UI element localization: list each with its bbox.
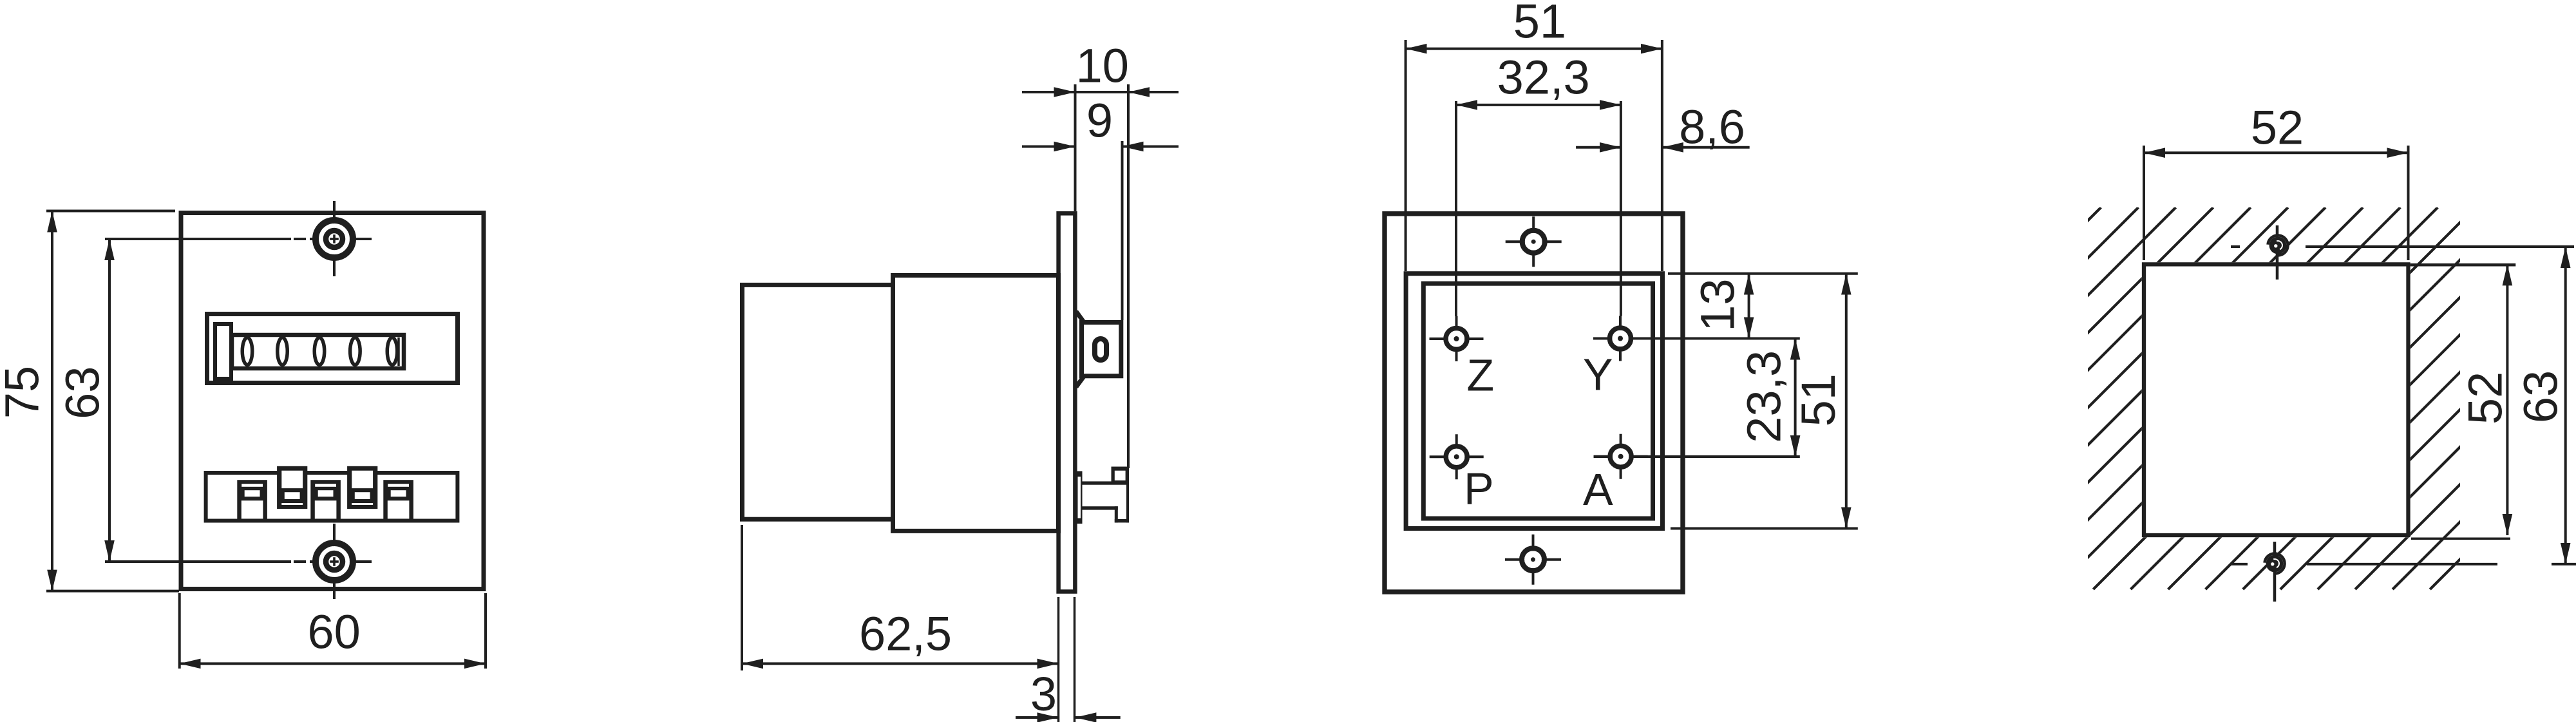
digit separator line bbox=[397, 337, 400, 366]
clip slant bottom bbox=[1076, 375, 1084, 387]
dim 3 extension lines bbox=[1057, 597, 1060, 722]
rear view: inner frame outer bbox=[1406, 274, 1662, 529]
right ext line bottom bbox=[1671, 527, 1858, 530]
ext line Y row to 23,3 dim bbox=[1593, 337, 1800, 340]
dim 62,5 extension left bbox=[741, 525, 743, 670]
dimension 32,3 bbox=[1456, 104, 1621, 106]
svg-text:60: 60 bbox=[307, 605, 360, 659]
top screw line bbox=[2231, 245, 2240, 248]
top edge extension bbox=[2410, 263, 2516, 267]
svg-text:51: 51 bbox=[1513, 0, 1566, 48]
dimension 51 right bbox=[1845, 274, 1848, 529]
dimension 8,6 bbox=[1576, 146, 1621, 149]
dim 60 extension right bbox=[484, 593, 487, 669]
svg-text:52: 52 bbox=[2251, 100, 2304, 154]
wall hatching bbox=[1681, 207, 2576, 589]
ext line 10mm bbox=[1127, 84, 1130, 468]
screw head bbox=[319, 223, 350, 254]
screw crosshair vertical bbox=[333, 201, 336, 276]
dimension 52 right bbox=[2506, 264, 2508, 535]
small fixing screw bbox=[1505, 558, 1561, 561]
port circle bbox=[1594, 455, 1648, 458]
port circle bbox=[1593, 337, 1647, 340]
dim 75 extension line top bbox=[46, 210, 175, 213]
dimension 75 line bbox=[51, 211, 53, 591]
dimension 23,3 bbox=[1794, 339, 1797, 457]
dim 52 top ext lines bbox=[2143, 146, 2145, 260]
svg-text:Y: Y bbox=[1583, 350, 1613, 400]
clip hole 0 bbox=[1095, 339, 1106, 360]
bottom mounting clip bbox=[1077, 471, 1083, 524]
svg-text:75: 75 bbox=[0, 366, 48, 419]
rear view: outer outline bbox=[1385, 214, 1683, 592]
dimension 62,5 line bbox=[742, 662, 1059, 665]
bottom edge extension bbox=[2411, 538, 2510, 540]
dimension 51 top bbox=[1406, 48, 1662, 50]
dim 60 extension left bbox=[178, 593, 181, 669]
svg-text:62,5: 62,5 bbox=[859, 607, 952, 660]
dimension 63 right bbox=[2564, 247, 2567, 564]
dimension 13 bbox=[1748, 274, 1750, 339]
terminal (lower type) bbox=[237, 480, 267, 520]
dimension 3 bbox=[1016, 716, 1059, 719]
dim 63 extension bottom (crosshair of bottom screw) bbox=[105, 560, 291, 563]
dim 32,3 ext lines bbox=[1455, 101, 1457, 316]
terminal (raised type) bbox=[277, 466, 307, 509]
side view: front body bbox=[893, 276, 1059, 531]
dimension 10 bbox=[1022, 91, 1075, 93]
bottom wall screw crosshair bbox=[2273, 542, 2277, 602]
screw crosshair vertical bbox=[333, 524, 336, 599]
mounting panel plate bbox=[1059, 213, 1075, 591]
top clip box bbox=[1082, 323, 1121, 376]
svg-text:23,3: 23,3 bbox=[1737, 350, 1790, 443]
side view: rear body bbox=[743, 285, 893, 519]
svg-text:10: 10 bbox=[1076, 39, 1129, 92]
cut-out square bbox=[2144, 264, 2409, 535]
dimension 60 line bbox=[180, 662, 486, 665]
dim 63 extension top (crosshair of top screw) bbox=[105, 238, 291, 240]
terminal (lower type) bbox=[383, 480, 413, 520]
dimension 52 top bbox=[2144, 151, 2409, 154]
counter display window frame bbox=[207, 314, 458, 383]
spiral screw symbol bbox=[2266, 555, 2284, 573]
screw head bbox=[319, 546, 350, 577]
dimension 63 line bbox=[108, 239, 111, 562]
terminal (lower type) bbox=[310, 480, 341, 520]
svg-text:63: 63 bbox=[2514, 370, 2567, 423]
counter digits window bbox=[232, 335, 404, 368]
reset button bbox=[215, 324, 231, 379]
front view: panel outline bbox=[181, 213, 484, 589]
svg-text:52: 52 bbox=[2458, 372, 2512, 424]
port circle bbox=[1430, 337, 1484, 340]
right ext line top bbox=[1668, 272, 1858, 275]
dim 51 top ext lines bbox=[1405, 40, 1407, 271]
top wall screw crosshair bbox=[2276, 225, 2279, 280]
svg-text:32,3: 32,3 bbox=[1497, 50, 1590, 104]
ext line A row to 23,3 dim bbox=[1594, 455, 1800, 458]
svg-text:A: A bbox=[1583, 464, 1613, 515]
ext line 9mm bbox=[1121, 141, 1124, 320]
bottom screw line bbox=[2231, 563, 2248, 565]
svg-text:13: 13 bbox=[1690, 278, 1744, 331]
svg-text:Z: Z bbox=[1466, 350, 1494, 400]
ext line panel rear face bbox=[1074, 84, 1077, 211]
rear view: inner frame inner bbox=[1423, 283, 1653, 518]
svg-text:P: P bbox=[1464, 464, 1494, 514]
clip slant top bbox=[1076, 312, 1084, 323]
digit wheels (5 zeros) bbox=[242, 337, 252, 365]
svg-text:8,6: 8,6 bbox=[1679, 100, 1745, 153]
spiral screw symbol bbox=[2269, 237, 2287, 254]
small fixing screw bbox=[1506, 240, 1562, 243]
dim 75 extension line bottom bbox=[46, 590, 179, 593]
dimension 9 bbox=[1022, 146, 1075, 148]
terminal strip bbox=[206, 473, 458, 521]
svg-text:63: 63 bbox=[55, 366, 109, 419]
svg-text:9: 9 bbox=[1086, 93, 1113, 147]
port circle bbox=[1430, 455, 1484, 458]
svg-text:3: 3 bbox=[1030, 667, 1057, 721]
svg-text:51: 51 bbox=[1792, 374, 1845, 426]
terminal (raised type) bbox=[347, 466, 377, 509]
